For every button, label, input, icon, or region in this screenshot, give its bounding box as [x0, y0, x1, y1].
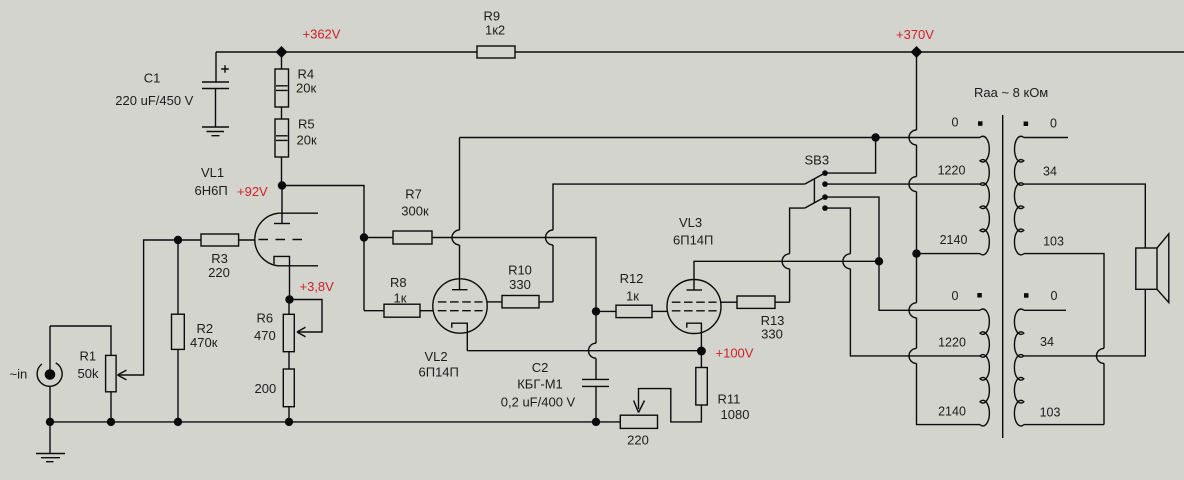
svg-text:0: 0 [952, 116, 959, 130]
svg-text:VL3: VL3 [679, 215, 702, 230]
ground at C1 [202, 127, 229, 136]
node rail C2 [592, 418, 600, 426]
node R12 left junction [592, 307, 600, 315]
wire C2 riser with hop [589, 311, 597, 379]
node R7 left junction [360, 233, 368, 241]
svg-text:R7: R7 [405, 186, 422, 201]
resistor R3 [178, 234, 255, 246]
tube VL1 anode [274, 186, 290, 224]
wire VL2 cathode line [467, 350, 701, 352]
svg-text:20к: 20к [296, 80, 316, 95]
wire secondary tap 34 lower to speaker [1024, 289, 1146, 356]
speaker [1136, 234, 1169, 303]
wire SB3 contact1 to anode line [825, 138, 876, 174]
svg-text:R2: R2 [197, 321, 214, 336]
svg-text:2140: 2140 [938, 405, 966, 419]
svg-text:R10: R10 [508, 263, 532, 278]
svg-text:+362V: +362V [303, 26, 341, 41]
tube VL2 cathode [452, 323, 468, 351]
svg-text:6Н6П: 6Н6П [195, 183, 228, 198]
svg-text:0: 0 [1051, 289, 1058, 303]
svg-text:470к: 470к [190, 335, 218, 350]
wire secondary tap 0 upper [1024, 137, 1068, 139]
node R3/R2 junction [174, 236, 182, 244]
potentiometer R1 [106, 355, 127, 422]
ground at input [36, 422, 65, 462]
resistor R11 [639, 351, 708, 422]
wire SB3 contact4 to lower tap 1220 [825, 208, 980, 356]
transformer primary upper winding [980, 136, 989, 255]
svg-text:220: 220 [208, 265, 230, 280]
svg-text:50k: 50k [78, 366, 99, 381]
wire tap 2140 upper [917, 253, 981, 255]
wire screen riser to SB3 [546, 184, 805, 302]
tube VL1 envelope [255, 213, 318, 266]
tube VL3 screen grid [672, 301, 717, 303]
svg-text:0: 0 [952, 289, 959, 303]
svg-text:1220: 1220 [938, 164, 966, 178]
svg-text:1220: 1220 [938, 336, 966, 350]
tube VL1 cathode [274, 256, 290, 299]
wire secondary tap 34 upper to speaker [1024, 184, 1146, 248]
phase dot secondary upper [1024, 122, 1029, 127]
svg-text:220: 220 [627, 432, 649, 447]
phase dot secondary lower [1024, 293, 1029, 298]
tube VL3 cathode [687, 323, 702, 351]
svg-text:1к: 1к [626, 289, 639, 304]
resistor R5 [275, 119, 289, 157]
svg-text:R11: R11 [718, 391, 741, 406]
node VL3 anode junction [875, 257, 883, 265]
svg-text:103: 103 [1040, 406, 1061, 420]
node +3.8V [285, 295, 293, 303]
svg-text:R4: R4 [298, 66, 315, 81]
wire SB3 contact3 to VL3 anode line [825, 197, 980, 310]
svg-text:C2: C2 [532, 360, 549, 375]
wire C1 top lead [215, 52, 217, 82]
wire secondary tap 103 lower [1024, 424, 1104, 426]
tube VL2 envelope [433, 279, 487, 333]
resistor R10 [502, 296, 553, 308]
capacitor C1 [202, 65, 229, 127]
tube VL3 envelope [667, 280, 721, 334]
wire SB3 contact2 to tap 1220 [825, 183, 980, 185]
svg-text:470: 470 [254, 328, 276, 343]
svg-text:1080: 1080 [721, 407, 750, 422]
resistor R6b 200 [283, 369, 294, 422]
svg-text:34: 34 [1040, 335, 1054, 349]
wire grid branch to R1 wiper [119, 240, 178, 375]
svg-text:R6: R6 [257, 311, 274, 326]
svg-text:R3: R3 [211, 251, 228, 266]
svg-text:VL1: VL1 [201, 165, 224, 180]
resistor R4 [275, 69, 289, 107]
svg-text:300к: 300к [401, 203, 429, 218]
node rail R2 [174, 418, 182, 426]
svg-text:103: 103 [1043, 235, 1064, 249]
transformer primary lower winding [980, 309, 989, 426]
resistor R13 [737, 296, 790, 308]
transformer secondary upper winding [1014, 136, 1023, 255]
tube VL3 control grid [672, 310, 717, 312]
transformer secondary lower winding [1014, 309, 1023, 426]
tube VL3 anode [687, 261, 879, 290]
tube VL2 control grid [438, 310, 483, 312]
wire VL2 screen to R10 [487, 301, 502, 303]
node +92V [278, 181, 286, 189]
switch SB3 [805, 170, 828, 211]
svg-text:1к: 1к [394, 290, 407, 305]
connector ~in [37, 326, 62, 422]
wire secondary tap 0 lower [1024, 309, 1066, 311]
wire VL3 screen riser with hop [782, 208, 805, 302]
wire VL3 screen to R13 [721, 301, 737, 303]
wire +370V riser [909, 52, 980, 425]
tube VL2 screen grid [438, 301, 483, 303]
svg-text:R1: R1 [80, 349, 97, 364]
wire top +B rail [216, 51, 1184, 53]
svg-text:20к: 20к [297, 132, 317, 147]
node +362V junction [276, 46, 288, 58]
wire secondary tap 103 upper [1024, 254, 1104, 425]
svg-text:R5: R5 [298, 116, 315, 131]
svg-text:0,2 uF/400 V: 0,2 uF/400 V [501, 394, 576, 409]
svg-text:6П14П: 6П14П [673, 233, 713, 248]
svg-text:+100V: +100V [716, 346, 754, 361]
svg-text:VL2: VL2 [425, 349, 448, 364]
wire R5 bottom lead [281, 157, 283, 186]
resistor R2 [172, 240, 185, 422]
svg-text:КБГ-М1: КБГ-М1 [517, 377, 563, 392]
potentiometer 220 [620, 401, 657, 429]
tube VL2 anode [452, 138, 468, 290]
ground rail bottom [50, 421, 620, 423]
node rail input [46, 418, 54, 426]
resistor R12 [596, 305, 668, 317]
svg-text:6П14П: 6П14П [419, 365, 459, 380]
node rail R6 [285, 418, 293, 426]
svg-text:SB3: SB3 [805, 152, 830, 167]
node anode line junction [871, 133, 879, 141]
wire R4 top lead [281, 52, 283, 69]
svg-text:220 uF/450 V: 220 uF/450 V [115, 93, 193, 108]
svg-text:R9: R9 [484, 8, 501, 23]
node rail R1 [107, 418, 115, 426]
svg-text:R12: R12 [620, 271, 644, 286]
svg-text:+370V: +370V [896, 27, 934, 42]
resistor R8 [364, 304, 433, 317]
wire R4-R5 [281, 107, 283, 119]
phase dot primary lower [977, 293, 982, 298]
svg-text:34: 34 [1043, 165, 1057, 179]
wire anode node to riser [282, 186, 364, 311]
svg-text:R8: R8 [390, 275, 407, 290]
svg-text:~in: ~in [10, 367, 28, 382]
resistor R7 [364, 231, 596, 311]
phase dot primary upper [978, 121, 983, 126]
node +100V [697, 347, 706, 356]
transformer core [1002, 115, 1004, 438]
svg-text:330: 330 [761, 326, 783, 341]
svg-text:1к2: 1к2 [485, 22, 505, 37]
resistor R9 [477, 46, 515, 58]
tube VL1 grid [259, 239, 304, 241]
svg-text:0: 0 [1050, 117, 1057, 131]
svg-text:+92V: +92V [237, 184, 268, 199]
capacitor C2 [582, 379, 609, 422]
svg-text:330: 330 [509, 277, 531, 292]
wire hop on 103 link [1097, 348, 1104, 363]
node +370V junction [911, 46, 923, 58]
svg-text:C1: C1 [144, 71, 161, 86]
svg-text:2140: 2140 [940, 233, 968, 247]
wire VL2 anode line to transformer [460, 137, 981, 139]
svg-text:Raa ~ 8 кОм: Raa ~ 8 кОм [974, 85, 1048, 100]
node B+ tap junction [912, 249, 920, 257]
potentiometer R6 [283, 300, 322, 370]
wire input to R1 [50, 326, 111, 355]
svg-text:200: 200 [255, 381, 277, 396]
svg-text:+3,8V: +3,8V [300, 279, 335, 294]
